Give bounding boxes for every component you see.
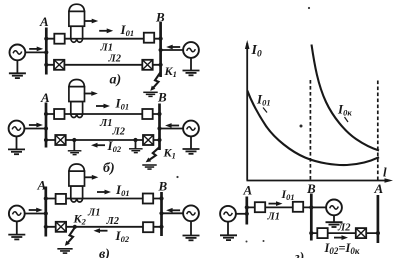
node busB-L2 [309, 231, 313, 235]
fault ground [143, 92, 157, 96]
bus B [310, 194, 313, 241]
wire line L2 [46, 226, 162, 228]
node L2 earth1 [72, 138, 76, 142]
wire line L2 [46, 64, 160, 66]
svg-text:Л1: Л1 [100, 43, 113, 54]
node busA-gen [44, 50, 48, 54]
breaker L1 left [255, 202, 265, 212]
x axis arrowhead [385, 178, 394, 182]
breaker on L1 left [54, 34, 64, 44]
recloser bottle [69, 4, 85, 42]
breaker L2 left [317, 228, 327, 238]
node busA-gen [245, 212, 249, 216]
arrow into bus B [166, 208, 180, 213]
gen G2 ground stem [190, 221, 192, 235]
dashed line A2 [377, 81, 379, 181]
y axis arrowhead [245, 40, 250, 49]
node busB-L1 [309, 205, 313, 209]
wire gen G2 to bus B [161, 49, 184, 51]
breaker on L1 right [143, 194, 153, 204]
speck 2 [300, 125, 303, 128]
wire gen to bus A [24, 128, 46, 130]
node busAr-L2 [376, 231, 380, 235]
dashed line B [309, 80, 311, 180]
y axis [246, 43, 248, 181]
ground [326, 222, 343, 227]
svg-text:I02: I02 [115, 228, 130, 244]
gen G1 ground stem [16, 60, 18, 73]
svg-text:A: A [243, 183, 253, 198]
bus A [44, 187, 47, 237]
fault ground [57, 249, 72, 253]
svg-text:A: A [374, 181, 384, 196]
node busA-L1 [245, 205, 249, 209]
current arrow on L2 [334, 235, 348, 240]
breaker on L1 right [142, 109, 152, 119]
ground [68, 151, 82, 155]
node busB-L1 [159, 196, 163, 200]
disconnector L2 right [143, 135, 153, 145]
node busB-L2 [159, 63, 163, 67]
node busB-gen [159, 211, 163, 215]
svg-text:I01: I01 [120, 22, 135, 38]
fault ground [142, 165, 156, 169]
current arrow I02 (left) [94, 228, 108, 233]
generator G2 [183, 42, 199, 58]
svg-text:I01: I01 [115, 96, 130, 112]
current arrow I01 [269, 201, 283, 206]
arrow into bus B [166, 45, 180, 50]
svg-text:A: A [40, 90, 50, 105]
svg-text:Л2: Л2 [112, 127, 126, 138]
gen G3 ground stem [333, 215, 335, 222]
svg-text:г): г) [295, 251, 305, 258]
svg-text:Л2: Л2 [106, 216, 120, 227]
node L2 earth2 [133, 138, 137, 142]
generator G1 [9, 121, 25, 137]
gen G1 ground stem [16, 136, 18, 149]
x axis [247, 180, 390, 182]
wire line L1 [46, 198, 162, 200]
svg-text:I01: I01 [281, 187, 295, 202]
bus B [160, 192, 163, 236]
speck 1 [308, 7, 310, 9]
disconnector L2 left [56, 222, 66, 232]
arrow from bottle [84, 175, 98, 180]
wire line L2 [46, 139, 160, 141]
svg-text:К1: К1 [163, 146, 176, 161]
gen G1 ground stem [16, 221, 18, 234]
current arrow I01 [96, 104, 110, 109]
bus A [45, 28, 48, 75]
svg-text:B: B [158, 179, 168, 194]
ground [183, 236, 200, 241]
current arrow I02 (left) [91, 143, 105, 148]
bus A left [245, 197, 248, 225]
wire gen to bus A [236, 213, 247, 215]
fault bolt K1 [150, 73, 160, 91]
arrow into bus A [29, 208, 43, 213]
arrow into bus B [165, 123, 179, 128]
node busA-L2 [44, 138, 48, 142]
svg-text:I01: I01 [115, 182, 130, 198]
bus A [45, 103, 48, 148]
svg-text:A: A [37, 178, 47, 193]
ground [9, 73, 26, 78]
node busA-L1 [44, 37, 48, 41]
node busA-gen [44, 211, 48, 215]
node busA-L1 [44, 112, 48, 116]
speck 3 [176, 176, 178, 178]
breaker L1 right [293, 202, 303, 212]
node busB-L1 [159, 37, 163, 41]
breaker on L1 left [56, 194, 66, 204]
svg-text:К2: К2 [73, 212, 87, 227]
node busB-gen [157, 126, 161, 130]
wire line L2 [311, 232, 378, 234]
ground [220, 235, 237, 240]
generator G1 [9, 206, 25, 222]
disconnector L2 right [356, 228, 366, 238]
breaker on L2 right [143, 222, 153, 232]
disconnector L2 left [55, 135, 65, 145]
ground [129, 149, 143, 153]
generator G1 [220, 206, 236, 222]
gen G2 ground stem [190, 136, 192, 149]
svg-text:Л1: Л1 [87, 208, 100, 219]
bus B [159, 22, 162, 77]
svg-text:l: l [383, 165, 387, 180]
disconnector L2 right [142, 60, 152, 70]
curve I0k [312, 45, 380, 151]
ground [8, 235, 25, 240]
node L2 K2 [73, 225, 77, 229]
wire gen to bus A [25, 51, 46, 53]
curve I01 [247, 91, 379, 166]
disconnector L2 left [54, 60, 64, 70]
generator G3 [326, 200, 342, 216]
wire line L1 [247, 206, 311, 208]
arrow from bottle [84, 91, 98, 96]
gen G2 ground stem [190, 58, 192, 71]
speck 5 [263, 240, 265, 242]
arrow into bus A [29, 123, 43, 128]
svg-text:I01: I01 [256, 92, 271, 108]
node busB-L2 [159, 225, 163, 229]
svg-text:Л2: Л2 [108, 54, 122, 65]
generator G2 [183, 205, 199, 221]
earth switch stem 2 [135, 140, 137, 149]
wire gen G3 to bus B [311, 206, 325, 208]
svg-text:Л1: Л1 [267, 212, 280, 223]
recloser bottle [69, 164, 85, 202]
speck 4 [246, 241, 248, 243]
svg-text:I02=I0к: I02=I0к [324, 241, 360, 256]
fault bolt K2 [65, 228, 75, 246]
bus A right [377, 195, 380, 243]
bus B [158, 104, 161, 151]
wire gen G2 to bus B [160, 128, 184, 130]
arrow from bottle [84, 19, 98, 24]
ground [8, 149, 25, 154]
breaker on L1 left [54, 109, 64, 119]
wire line L1 [46, 38, 160, 40]
svg-text:A: A [39, 14, 49, 29]
current arrow I01 [99, 28, 113, 33]
node busB-gen [159, 48, 163, 52]
node busA-L2 [44, 225, 48, 229]
breaker on L1 right [144, 33, 154, 43]
svg-text:б): б) [103, 161, 115, 176]
svg-text:а): а) [110, 73, 122, 88]
current arrow I01 [97, 190, 111, 195]
fault bolt K1 [146, 144, 160, 164]
ground [183, 149, 200, 154]
node busA-L1 [44, 196, 48, 200]
generator G2 [183, 121, 199, 137]
earth switch stem 1 [73, 140, 75, 151]
ground [183, 71, 200, 76]
leader I01 [263, 108, 267, 113]
wire gen to bus A [25, 213, 46, 215]
leader I0k [345, 117, 349, 122]
svg-text:I0: I0 [251, 43, 262, 60]
node busA-gen [44, 126, 48, 130]
svg-text:B: B [157, 90, 167, 105]
svg-text:в): в) [99, 247, 110, 258]
node busA-L2 [44, 63, 48, 67]
wire line L1 [46, 113, 160, 115]
svg-text:B: B [155, 10, 165, 25]
wire gen G2 to bus B [162, 212, 184, 214]
svg-text:К1: К1 [164, 64, 177, 79]
node busB-L1 [157, 112, 161, 116]
node busB-L2 [157, 138, 161, 142]
svg-text:Л2: Л2 [337, 223, 351, 234]
gen G1 ground stem [227, 222, 229, 236]
svg-text:I0к: I0к [337, 102, 352, 118]
recloser bottle [69, 80, 85, 118]
svg-text:Л1: Л1 [99, 118, 112, 129]
generator G1 [10, 45, 26, 61]
arrow into bus A [29, 47, 43, 52]
